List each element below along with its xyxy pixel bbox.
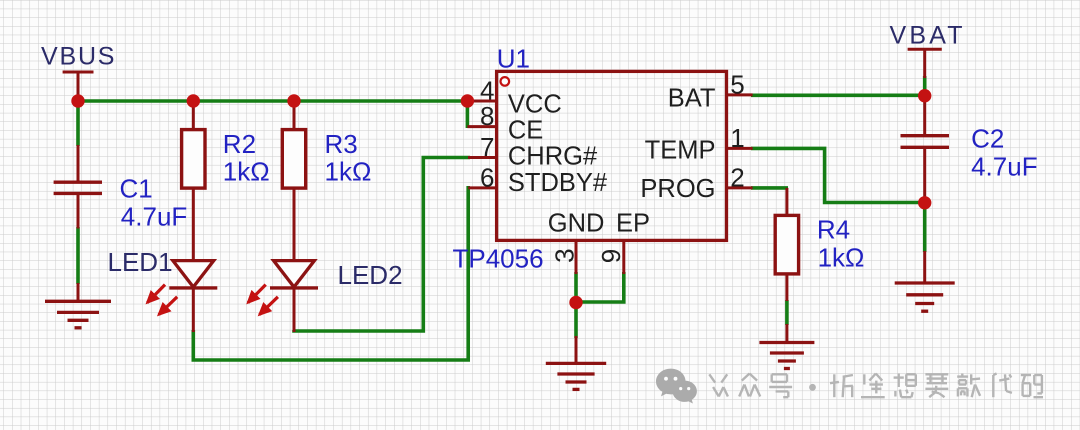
svg-text:R2: R2: [223, 129, 256, 159]
svg-text:STDBY#: STDBY#: [508, 169, 608, 197]
svg-text:LED1: LED1: [108, 247, 173, 277]
svg-text:8: 8: [480, 101, 494, 131]
svg-text:PROG: PROG: [640, 175, 715, 203]
svg-text:VCC: VCC: [508, 91, 562, 119]
svg-text:C2: C2: [971, 124, 1004, 154]
svg-text:2: 2: [730, 162, 744, 192]
svg-text:4.7uF: 4.7uF: [121, 202, 188, 232]
svg-text:TP4056: TP4056: [453, 244, 544, 274]
svg-text:1: 1: [730, 123, 744, 153]
svg-text:VBAT: VBAT: [890, 22, 966, 50]
svg-text:1kΩ: 1kΩ: [818, 243, 865, 273]
svg-text:4.7uF: 4.7uF: [971, 152, 1038, 182]
svg-text:C1: C1: [120, 174, 153, 204]
svg-text:R3: R3: [325, 129, 358, 159]
svg-text:LED2: LED2: [338, 260, 403, 290]
svg-text:3: 3: [550, 248, 580, 262]
svg-text:CE: CE: [508, 117, 543, 145]
svg-text:EP: EP: [616, 210, 650, 238]
svg-text:R4: R4: [817, 215, 850, 245]
svg-text:TEMP: TEMP: [645, 136, 716, 164]
svg-text:7: 7: [480, 132, 494, 162]
svg-text:1kΩ: 1kΩ: [223, 157, 270, 187]
svg-text:U1: U1: [497, 44, 530, 74]
svg-text:GND: GND: [548, 210, 605, 238]
svg-text:5: 5: [730, 69, 744, 99]
svg-text:CHRG#: CHRG#: [508, 143, 598, 171]
svg-text:6: 6: [480, 162, 494, 192]
svg-text:1kΩ: 1kΩ: [325, 157, 372, 187]
svg-text:9: 9: [596, 249, 626, 263]
svg-text:VBUS: VBUS: [41, 43, 116, 71]
svg-text:BAT: BAT: [668, 84, 716, 112]
